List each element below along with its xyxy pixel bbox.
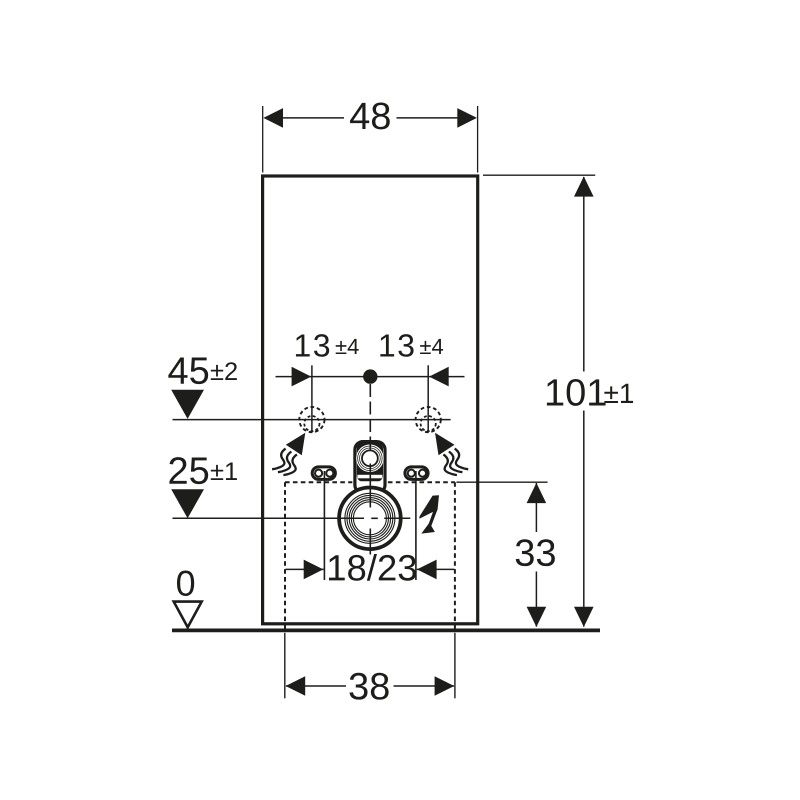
dim 33: dimension line [535, 483, 537, 532]
level marker 45 filled triangle [171, 390, 204, 419]
dim 38: dimension line [286, 685, 346, 687]
bracket filled block [357, 443, 383, 481]
dashed circle right [416, 407, 441, 432]
label 45 plus-minus 2 [168, 358, 208, 385]
flush bend bracket outer [355, 442, 385, 493]
dim 18/23: dimension line [286, 568, 324, 570]
plug cable line left [323, 471, 325, 580]
dim 33: extension line [456, 481, 547, 483]
water supply chrome circle [339, 488, 401, 550]
connector plug right [405, 467, 428, 480]
dim 33: top arrow [527, 483, 547, 503]
level line 45 [173, 419, 451, 421]
dim 48: extension line right [477, 106, 479, 173]
lightning bolt [419, 495, 439, 533]
dim 13 left arrow [292, 367, 312, 387]
dim 101: extension line top [483, 174, 595, 176]
dim 18/23: right arrow [417, 560, 437, 580]
dashed circle left [299, 407, 324, 432]
label 25 plus-minus 1 [169, 457, 208, 484]
dim 101: top arrow [574, 176, 594, 196]
dim 48: dimension line [283, 117, 344, 119]
dim 101: bottom arrow [574, 607, 594, 627]
dim 38: left arrow [286, 676, 306, 696]
dim 48: extension line left [262, 106, 264, 173]
dim 13/13: dimension line [276, 376, 465, 378]
connector plug left [312, 467, 335, 480]
dim 38: extension lines [284, 633, 286, 699]
label 38 [350, 673, 389, 700]
bracket rings [357, 445, 383, 471]
dim 13: extension line left [311, 365, 313, 432]
level line 25 [173, 517, 365, 519]
center dot [363, 369, 377, 383]
label 33 [516, 539, 555, 566]
label 101 plus-minus 1 [547, 379, 606, 406]
center cross short dash [371, 517, 378, 519]
label 13 plus-minus 4 right [380, 334, 413, 357]
heat arrow right (mirror) [435, 433, 468, 475]
label 18/23 [329, 554, 416, 581]
dim 13 right arrow [429, 367, 449, 387]
level marker 0 open triangle [174, 602, 202, 628]
dim 101: dimension line [583, 177, 585, 372]
floor line [172, 629, 600, 633]
label 13 plus-minus 4 left [296, 334, 329, 357]
heat arrow left [272, 433, 305, 475]
dim 48: left arrow [263, 108, 283, 128]
dim 18/23: left arrow [304, 560, 324, 580]
level marker 25 filled triangle [171, 489, 204, 518]
dim 48: right arrow [457, 108, 477, 128]
dim 13: extension line right [427, 365, 429, 432]
module outline rectangle [263, 176, 478, 624]
plug cable line right [415, 471, 417, 580]
center cross right segment [384, 517, 410, 519]
label 48 [350, 102, 390, 129]
center line vertical segments [369, 384, 371, 453]
label 0 [177, 571, 194, 596]
dim 38: right arrow [435, 676, 455, 696]
dim 33: bottom arrow [527, 607, 547, 627]
dashed service area rectangle [285, 482, 455, 629]
